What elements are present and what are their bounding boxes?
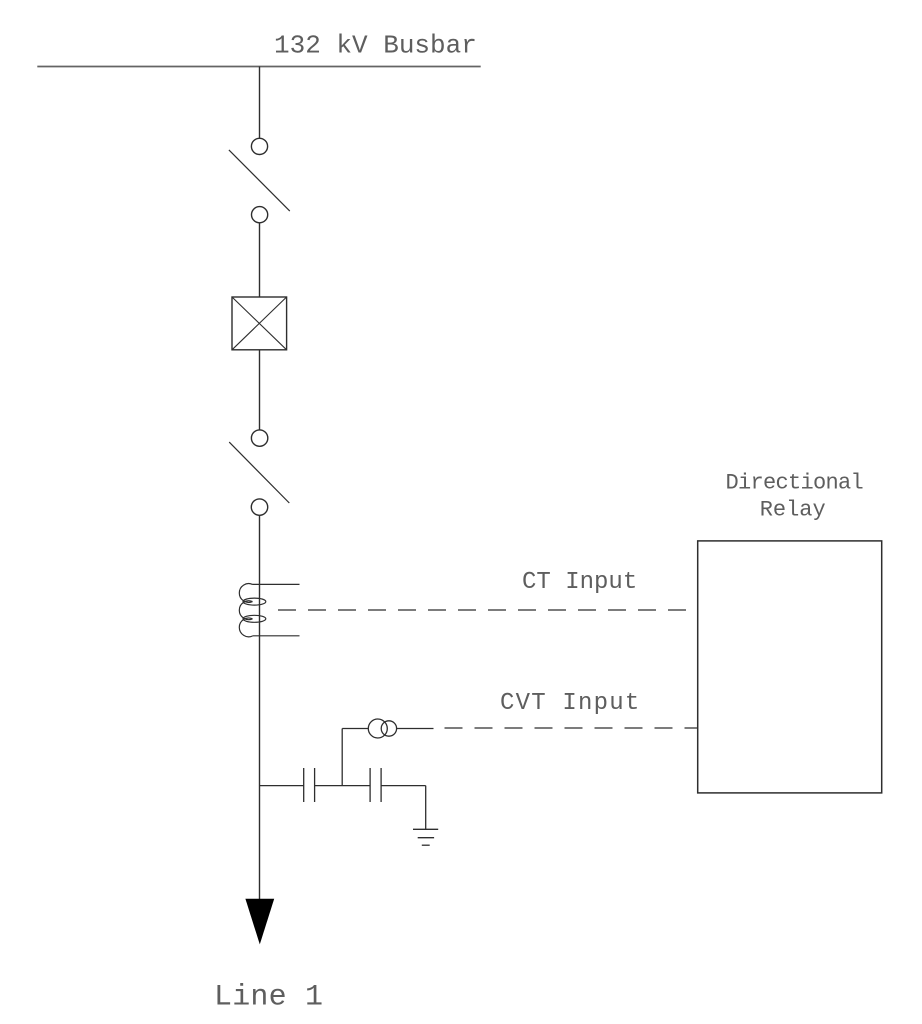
svg-text:CVT Input: CVT Input <box>500 690 640 717</box>
svg-text:Line 1: Line 1 <box>214 980 323 1014</box>
svg-text:CT Input: CT Input <box>522 569 637 596</box>
svg-text:132 kV Busbar: 132 kV Busbar <box>274 31 477 61</box>
svg-text:Relay: Relay <box>760 498 826 523</box>
svg-text:Directional: Directional <box>726 471 864 496</box>
